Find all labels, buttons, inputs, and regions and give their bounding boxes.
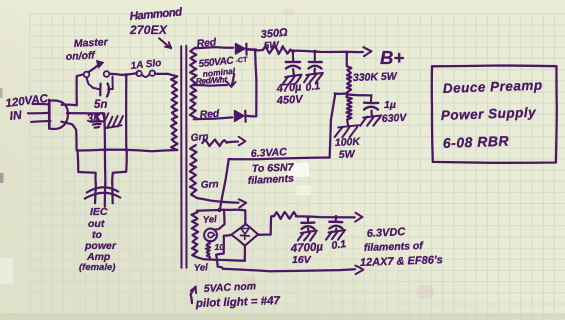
svg-text:Yel: Yel bbox=[202, 214, 217, 226]
resistor R5 (filament dropper) bbox=[274, 212, 296, 219]
switch lever with arrowhead bbox=[89, 65, 99, 72]
secondary winding 6.3VAC (Grn) bbox=[190, 145, 197, 198]
wire: junction to C3 bbox=[347, 93, 369, 96]
wire: B+ rail down to R2 bbox=[346, 53, 348, 66]
svg-text:6-08 RBR: 6-08 RBR bbox=[443, 133, 510, 151]
resistor R2 330K 5W bbox=[347, 67, 352, 93]
label 5VAC nom with arrow bbox=[191, 289, 194, 303]
wire: plug bottom prong down to rail bbox=[61, 122, 76, 150]
svg-text:1µ: 1µ bbox=[384, 99, 396, 111]
wire: HV bottom lead to diode D2 bbox=[194, 117, 233, 119]
IEC outlet J1 (female) bbox=[94, 183, 97, 203]
return rail wire with arrow bbox=[223, 269, 355, 271]
B+ rail wire to arrow bbox=[290, 51, 363, 53]
wire: post-switch drop to IEC feed bbox=[125, 75, 127, 150]
svg-text:350Ω: 350Ω bbox=[260, 27, 288, 41]
wire: IEC pin middle bbox=[104, 151, 107, 183]
capacitor C_sw 5n 3KV across switch bbox=[87, 78, 94, 89]
wire: step down to return rail B bbox=[217, 260, 223, 268]
svg-text:filaments: filaments bbox=[248, 173, 295, 187]
bridge rectifier BR1 bbox=[231, 224, 258, 246]
wire: plug middle prong to grounds bbox=[67, 112, 104, 114]
svg-text:450V: 450V bbox=[276, 94, 305, 107]
plug prong (ground) bbox=[31, 120, 50, 123]
ground for R3 bbox=[346, 120, 349, 126]
diode D1 bbox=[236, 44, 246, 55]
svg-text:16V: 16V bbox=[292, 254, 312, 266]
transformer core bbox=[180, 46, 182, 268]
wire: rail down/step to IEC pin R bbox=[112, 150, 127, 183]
svg-text:Grn: Grn bbox=[201, 179, 219, 191]
svg-text:IEC: IEC bbox=[90, 206, 108, 218]
wire: bridge right corner up to output rail bbox=[258, 217, 271, 235]
svg-text:270EX: 270EX bbox=[129, 23, 168, 37]
diode symbol inside bridge bbox=[241, 229, 249, 235]
B+ rail wire bbox=[247, 48, 264, 51]
neutral rail wire along y=150 bbox=[77, 150, 178, 152]
chassis ground symbol (at mains entry) bbox=[106, 125, 122, 128]
earth ground symbol bbox=[96, 114, 98, 121]
transformer T1 primary winding bbox=[171, 76, 178, 150]
wire: heater elevation from divider junction down-left bbox=[330, 94, 336, 158]
ground for C5 bbox=[335, 229, 338, 231]
wire: Yel top lead bbox=[197, 210, 224, 212]
annotation arrow to transformer bbox=[159, 38, 171, 48]
resistor R3 100K 5W bbox=[346, 93, 349, 96]
svg-text:IN: IN bbox=[9, 108, 23, 123]
svg-text:330K 5W: 330K 5W bbox=[353, 70, 398, 84]
resistor R1 350ohm 5W bbox=[263, 46, 290, 54]
capacitor C2 0.1 bbox=[314, 51, 316, 61]
wire: drop to bridge top corner bbox=[244, 210, 246, 224]
pink smudge marks bbox=[416, 285, 434, 299]
wire: plug hot up to switch bbox=[62, 74, 83, 105]
pilot lamp PL1 (#47) with dropper bbox=[214, 211, 225, 229]
wire: HV top lead to diode D1 bbox=[196, 47, 234, 48]
capacitor C1 470u 450V bbox=[292, 51, 295, 61]
svg-text:B+: B+ bbox=[380, 47, 404, 68]
wire: rail down to IEC pin L bbox=[78, 151, 96, 183]
wire: middle prong drop to neutral rail bbox=[103, 114, 106, 151]
resistor R4 10 ohm bbox=[208, 241, 211, 244]
svg-text:0.1: 0.1 bbox=[331, 238, 347, 252]
svg-text:4700µ: 4700µ bbox=[290, 241, 324, 255]
node: divider junction bbox=[345, 92, 349, 96]
white-out correction patch bbox=[288, 162, 310, 177]
wire: center tap lead bbox=[194, 84, 228, 87]
wire: D1 cathode to B+ rail bbox=[247, 48, 256, 51]
capacitor C3 1u 630V bbox=[370, 95, 373, 102]
svg-text:Master: Master bbox=[74, 36, 109, 50]
secondary winding HV (Red) bbox=[190, 48, 197, 119]
svg-text:0.1: 0.1 bbox=[305, 80, 321, 94]
svg-text:(female): (female) bbox=[79, 262, 115, 273]
plug prong (neutral) bbox=[28, 112, 50, 115]
secondary winding 6.3VDC feed (Yel) bbox=[192, 212, 199, 257]
svg-text:on/off: on/off bbox=[66, 49, 97, 63]
svg-text:5W: 5W bbox=[263, 40, 280, 52]
svg-text:5W: 5W bbox=[339, 148, 356, 161]
diode D2 bbox=[235, 111, 245, 122]
svg-text:filaments of: filaments of bbox=[364, 240, 425, 254]
wire: Grn bottom lead with arrow bbox=[197, 198, 238, 203]
wire: winding bottom line A bbox=[198, 258, 245, 261]
ground for C1 bbox=[292, 69, 295, 75]
wire: Grn top lead squiggle with arrow (6.3VAC out) bbox=[202, 139, 227, 146]
scan edge marks bbox=[0, 173, 4, 183]
wire: fuse to transformer primary bbox=[155, 74, 177, 77]
capacitor C5 0.1 (filament) bbox=[335, 216, 338, 221]
plug prong (hot) bbox=[33, 103, 50, 106]
plug P1 (wall plug, male) bbox=[48, 100, 50, 129]
wire: bridge bottom corner drop bbox=[244, 245, 246, 260]
wire: switch to fuse bbox=[110, 73, 137, 75]
wire: D2 cathode up to B+ rail bbox=[246, 50, 257, 116]
ground for C4 bbox=[307, 229, 310, 231]
svg-text:Yel: Yel bbox=[194, 262, 209, 274]
title box frame bbox=[432, 66, 557, 163]
svg-text:3KV: 3KV bbox=[86, 111, 110, 125]
ground for C3 bbox=[370, 111, 373, 116]
6.3VDC rail wire with arrow bbox=[296, 216, 355, 217]
svg-text:100K: 100K bbox=[335, 136, 362, 149]
wire: bridge left corner down to return bbox=[216, 235, 231, 260]
svg-text:5n: 5n bbox=[94, 99, 107, 111]
svg-text:630V: 630V bbox=[382, 112, 408, 125]
capacitor C4 4700u 16V bbox=[307, 217, 310, 221]
svg-text:6.3VDC: 6.3VDC bbox=[367, 226, 407, 240]
ground for C2 bbox=[313, 69, 316, 73]
wire: R4 bottom to line A bbox=[208, 257, 211, 259]
